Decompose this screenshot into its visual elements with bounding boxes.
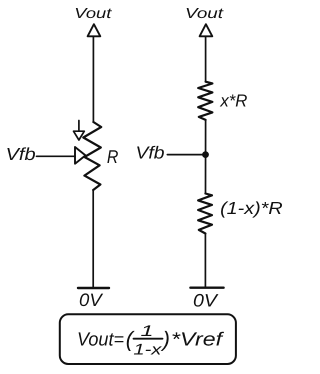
svg-text:Vout=: Vout= (77, 330, 124, 351)
resistor (1-x)*R (198, 194, 212, 234)
adjustment arrow above wiper (78, 121, 80, 132)
arrow Vout (right) (200, 24, 213, 36)
formula fraction bar (134, 338, 163, 340)
wire left vertical bottom (92, 190, 94, 287)
ground right (190, 287, 223, 289)
ground left (78, 287, 109, 289)
wire right vertical top (205, 36, 207, 81)
formula box (60, 314, 236, 364)
svg-text:Vfb: Vfb (6, 144, 36, 164)
svg-text:(1-x)*R: (1-x)*R (220, 198, 283, 218)
arrow Vout (left) (88, 24, 101, 36)
svg-text:0V: 0V (193, 291, 219, 311)
wire right vertical bottom (204, 234, 206, 288)
svg-text:0V: 0V (79, 290, 104, 310)
svg-text:Vout: Vout (185, 6, 224, 22)
svg-text:x*R: x*R (219, 90, 247, 110)
svg-text:Vout: Vout (74, 6, 112, 22)
wire Vfb right (167, 154, 203, 156)
svg-text:R: R (107, 146, 119, 167)
svg-text:*Vref: *Vref (171, 330, 224, 351)
svg-text:1-x: 1-x (133, 342, 163, 359)
resistor R (potentiometer body) (83, 122, 101, 190)
svg-text:Vfb: Vfb (136, 142, 165, 162)
wire Vfb left (37, 155, 76, 157)
wire right vertical middle (205, 120, 207, 194)
svg-text:1: 1 (141, 323, 154, 340)
wire left vertical top (92, 36, 94, 122)
resistor x*R (198, 82, 212, 120)
wiper arrow (potentiometer) (75, 147, 86, 164)
node junction dot (202, 151, 209, 158)
